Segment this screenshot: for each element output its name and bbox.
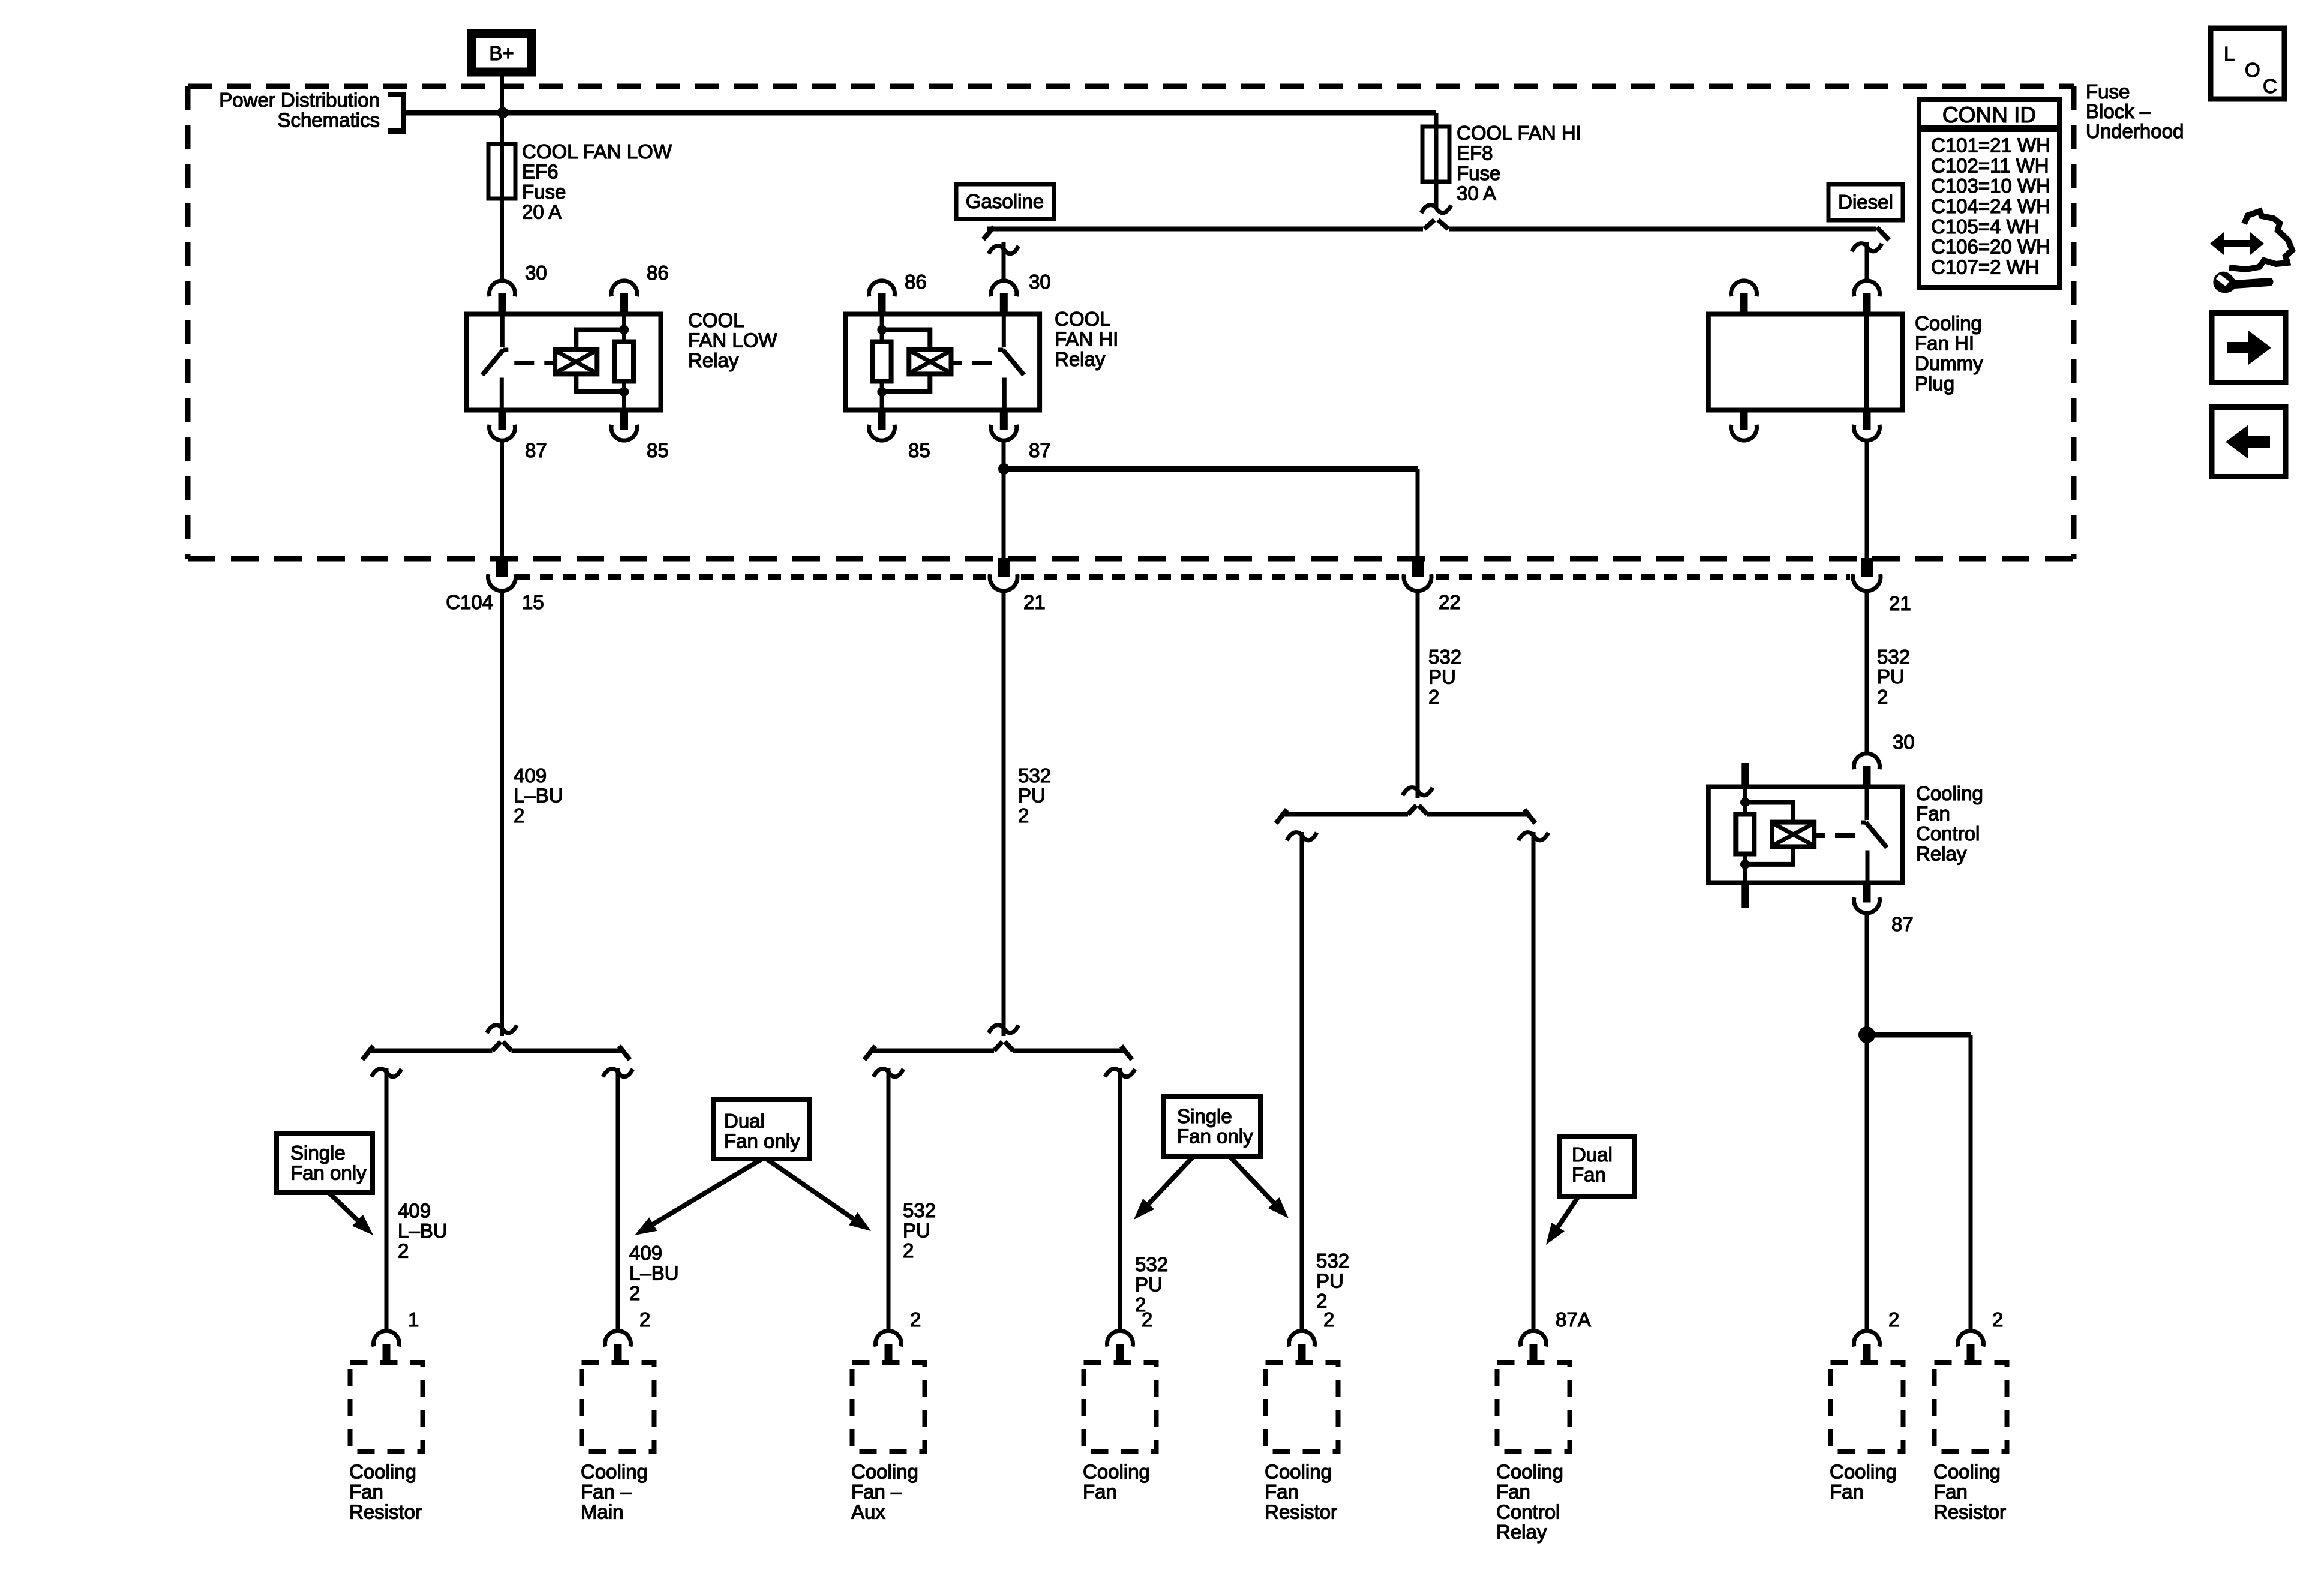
pin 2 connector of cooling fan main: [605, 1308, 651, 1362]
svg-text:87: 87: [1891, 913, 1914, 935]
svg-text:409: 409: [398, 1200, 431, 1222]
svg-text:Relay: Relay: [1496, 1521, 1547, 1543]
svg-text:532: 532: [1018, 764, 1051, 786]
pin 87 of control relay: [1891, 913, 1914, 935]
relay K3 Cooling Fan Control: [1709, 754, 1983, 913]
svg-text:2: 2: [639, 1308, 650, 1331]
relay K2 COOL FAN HI: [845, 281, 1118, 440]
svg-text:O: O: [2245, 59, 2260, 81]
connector C104 pin 21 diesel: [1853, 558, 1911, 614]
wire junction to connector pin 22: [1004, 469, 1418, 559]
wire circuit 532 PU from pin 21: [989, 590, 1051, 1036]
svg-text:22: 22: [1439, 591, 1461, 613]
svg-text:532: 532: [1316, 1250, 1349, 1272]
wire gasoline-diesel feed line: [983, 220, 1889, 241]
pin 86 of COOL FAN HI relay: [905, 271, 927, 293]
connector C104 dotted line: [517, 574, 1850, 580]
svg-text:Dual: Dual: [1572, 1143, 1613, 1166]
junction dot wire4: [1858, 1026, 1875, 1043]
svg-text:Cooling: Cooling: [1916, 782, 1983, 804]
svg-text:PU: PU: [1428, 666, 1456, 688]
svg-text:87A: 87A: [1556, 1308, 1591, 1331]
svg-text:Cooling: Cooling: [1265, 1461, 1332, 1483]
wire COOL FAN LOW 87 to C104 pin 15: [500, 442, 504, 558]
svg-text:2: 2: [1018, 804, 1029, 827]
svg-text:Underhood: Underhood: [2086, 120, 2184, 142]
svg-text:2: 2: [1323, 1308, 1334, 1331]
pin 85 of COOL FAN HI relay: [908, 439, 930, 461]
svg-text:L–BU: L–BU: [398, 1220, 448, 1242]
component cooling fan (single): [1083, 1362, 1157, 1503]
svg-text:2: 2: [1428, 686, 1439, 708]
svg-text:2: 2: [398, 1240, 409, 1262]
svg-text:Fan: Fan: [1265, 1481, 1299, 1503]
component cooling fan main: [581, 1362, 654, 1523]
wire branch 409 to cooling fan main: [603, 1068, 679, 1329]
svg-text:86: 86: [905, 271, 927, 293]
label Single Fan only right: [1134, 1097, 1289, 1220]
svg-text:EF8: EF8: [1457, 142, 1493, 164]
svg-text:Fan –: Fan –: [581, 1481, 632, 1503]
svg-text:Control: Control: [1496, 1501, 1560, 1523]
fuse EF6 COOL FAN LOW 20A: [488, 140, 672, 223]
svg-text:86: 86: [647, 262, 669, 284]
svg-text:Dummy: Dummy: [1915, 352, 1983, 374]
svg-text:Cooling: Cooling: [1083, 1461, 1150, 1483]
svg-text:Relay: Relay: [1916, 843, 1967, 865]
junction dot wire2: [998, 463, 1010, 475]
pin 2 connector of cooling fan (single): [1107, 1308, 1153, 1362]
svg-text:87: 87: [525, 439, 547, 461]
svg-text:15: 15: [522, 591, 544, 613]
svg-text:B+: B+: [489, 42, 514, 64]
svg-text:Schematics: Schematics: [277, 109, 380, 131]
wire branch to cooling fan resistor right: [1867, 1035, 1971, 1329]
icon next arrow: [2212, 313, 2286, 383]
svg-text:2: 2: [910, 1308, 921, 1331]
svg-text:PU: PU: [1135, 1274, 1163, 1296]
connector C104 pin 15: [446, 558, 544, 613]
svg-text:87: 87: [1029, 439, 1051, 461]
connector C104 pin 21: [990, 558, 1046, 613]
svg-text:PU: PU: [1316, 1270, 1344, 1292]
svg-text:COOL FAN HI: COOL FAN HI: [1457, 122, 1581, 144]
svg-text:2: 2: [903, 1239, 914, 1262]
svg-text:Cooling: Cooling: [1830, 1461, 1897, 1483]
svg-text:L: L: [2224, 43, 2235, 65]
splice bracket wire 409: [362, 1042, 630, 1060]
svg-text:L–BU: L–BU: [629, 1262, 679, 1284]
node Power Distribution Schematics bus: [219, 89, 1436, 131]
svg-text:Fan only: Fan only: [290, 1162, 367, 1184]
svg-text:Gasoline: Gasoline: [966, 190, 1044, 212]
fuse EF8 COOL FAN HI 30A: [1422, 122, 1581, 205]
wire EF8 to splice: [1434, 182, 1439, 207]
svg-text:Fan –: Fan –: [851, 1481, 902, 1503]
splice bracket wire 532 gasoline: [864, 1042, 1132, 1060]
svg-text:2: 2: [629, 1282, 640, 1304]
component cooling fan (diesel): [1830, 1362, 1903, 1503]
pin 2 connector of cooling fan aux: [876, 1308, 921, 1362]
connector Cooling Fan HI Dummy Plug: [1709, 281, 1983, 440]
component cooling fan control relay coil: [1496, 1362, 1570, 1543]
svg-text:C104: C104: [446, 591, 493, 613]
wire control relay 87 to cooling fans: [1865, 915, 1869, 1329]
svg-text:Cooling: Cooling: [349, 1461, 416, 1483]
svg-text:Fuse: Fuse: [1457, 162, 1500, 184]
svg-text:CONN ID: CONN ID: [1942, 103, 2036, 127]
wire junction to connector pin 21: [1002, 469, 1006, 558]
relay K1 COOL FAN LOW: [467, 281, 778, 440]
svg-text:21: 21: [1023, 591, 1046, 613]
svg-text:Resistor: Resistor: [349, 1501, 422, 1523]
wire circuit 409 L-BU from C104-15: [487, 590, 563, 1036]
svg-text:Fan: Fan: [1496, 1481, 1530, 1503]
svg-text:Resistor: Resistor: [1265, 1501, 1337, 1523]
icon back arrow: [2212, 407, 2286, 477]
svg-text:Dual: Dual: [724, 1110, 765, 1132]
svg-text:C105=4 WH: C105=4 WH: [1931, 215, 2040, 238]
svg-text:Plug: Plug: [1915, 373, 1954, 395]
svg-text:FAN LOW: FAN LOW: [688, 329, 777, 352]
svg-text:EF6: EF6: [522, 161, 559, 183]
svg-text:Fan: Fan: [1933, 1481, 1968, 1503]
svg-text:30: 30: [1029, 271, 1051, 293]
svg-text:PU: PU: [1018, 785, 1046, 807]
wire B+ to fuse EF6: [500, 76, 504, 144]
svg-text:COOL FAN LOW: COOL FAN LOW: [522, 140, 672, 163]
wire branch 532 to cooling fan aux: [873, 1068, 936, 1329]
svg-text:2: 2: [1992, 1308, 2003, 1331]
label Single Fan only left: [277, 1134, 373, 1235]
svg-text:Fan: Fan: [349, 1481, 383, 1503]
svg-text:Cooling: Cooling: [1915, 312, 1982, 334]
svg-text:409: 409: [629, 1242, 662, 1264]
svg-text:2: 2: [1888, 1308, 1899, 1331]
power symbol B+: [472, 34, 532, 72]
svg-text:2: 2: [1142, 1308, 1152, 1331]
svg-text:Relay: Relay: [688, 349, 739, 371]
pin 2 connector of cooling fan resistor (diesel): [1958, 1308, 2004, 1362]
wire branch 532 to cooling fan control relay 87A: [1518, 832, 1548, 1329]
icon LOC box: [2211, 28, 2284, 99]
svg-text:30: 30: [525, 262, 547, 284]
wire COOL FAN HI 87 to junction: [1002, 442, 1006, 469]
svg-text:532: 532: [903, 1199, 936, 1221]
svg-text:Aux: Aux: [851, 1501, 885, 1523]
svg-text:20 A: 20 A: [522, 201, 562, 223]
label Dual Fan: [1546, 1136, 1635, 1245]
wire circuit 532 PU from pin 22: [1403, 590, 1461, 798]
pin 87A connector of cooling fan control relay coil: [1521, 1308, 1591, 1362]
svg-text:FAN HI: FAN HI: [1055, 328, 1118, 350]
svg-text:409: 409: [514, 764, 547, 786]
svg-text:C: C: [2263, 75, 2277, 97]
svg-text:C102=11 WH: C102=11 WH: [1931, 154, 2049, 176]
pin 30 of control relay: [1893, 731, 1915, 753]
svg-text:PU: PU: [1877, 665, 1905, 688]
svg-text:C101=21 WH: C101=21 WH: [1931, 134, 2050, 157]
svg-text:Cooling: Cooling: [851, 1461, 918, 1483]
wire diesel line to dummy plug pin: [1852, 242, 1882, 280]
svg-text:1: 1: [408, 1308, 419, 1331]
svg-text:COOL: COOL: [1055, 308, 1111, 330]
svg-text:Block –: Block –: [2086, 100, 2151, 122]
svg-text:Diesel: Diesel: [1838, 191, 1893, 213]
svg-text:C103=10 WH: C103=10 WH: [1931, 175, 2050, 197]
label Fuse Block Underhood: [2086, 80, 2184, 142]
wire branch 409 to cooling fan resistor: [371, 1068, 448, 1329]
svg-text:PU: PU: [903, 1220, 930, 1242]
svg-text:21: 21: [1889, 592, 1911, 614]
svg-text:Fan: Fan: [1083, 1481, 1117, 1503]
junction dot at B+ bus: [497, 107, 509, 119]
svg-text:Main: Main: [581, 1501, 624, 1523]
svg-text:2: 2: [1877, 686, 1888, 708]
pin 86 of COOL FAN LOW relay: [647, 262, 669, 284]
splice break at EF8 output: [1421, 205, 1451, 213]
svg-text:85: 85: [908, 439, 930, 461]
svg-text:COOL: COOL: [688, 309, 744, 331]
icon vehicle with wrench: [2210, 211, 2292, 293]
pin 2 connector of cooling fan resistor (single): [1289, 1308, 1335, 1362]
splice bracket wire 532 pin 22: [1276, 806, 1535, 824]
wire dummy plug to connector pin 21 diesel: [1865, 442, 1869, 558]
wire gasoline line to COOL FAN HI relay pin 30: [989, 242, 1019, 280]
component cooling fan resistor (diesel): [1933, 1362, 2007, 1523]
wire bus to fuse EF8: [1434, 113, 1439, 127]
svg-text:Power Distribution: Power Distribution: [219, 89, 380, 111]
svg-text:Fan: Fan: [1916, 803, 1950, 825]
pin 2 connector of cooling fan (diesel): [1854, 1308, 1900, 1362]
svg-text:Fan only: Fan only: [1177, 1125, 1253, 1148]
svg-text:532: 532: [1877, 646, 1910, 668]
svg-text:30: 30: [1893, 731, 1915, 753]
svg-text:Fan only: Fan only: [724, 1130, 800, 1152]
pin 85 of COOL FAN LOW relay: [647, 439, 669, 461]
svg-text:2: 2: [514, 804, 524, 827]
svg-text:Control: Control: [1916, 822, 1980, 845]
svg-text:Relay: Relay: [1055, 348, 1106, 370]
fuse block underhood dashed border: [188, 86, 2074, 559]
svg-text:Cooling: Cooling: [1933, 1461, 2001, 1483]
svg-text:Fan HI: Fan HI: [1915, 332, 1974, 355]
pin 87 of COOL FAN HI relay: [1029, 439, 1051, 461]
svg-text:Fan: Fan: [1572, 1164, 1606, 1186]
component cooling fan resistor (single): [1265, 1362, 1338, 1523]
label Diesel: [1828, 184, 1903, 220]
svg-text:532: 532: [1135, 1253, 1168, 1275]
svg-text:Single: Single: [1177, 1105, 1232, 1127]
svg-text:30 A: 30 A: [1457, 182, 1496, 205]
component cooling fan resistor 1: [349, 1362, 423, 1523]
wire branch 532 to cooling fan resistor single: [1287, 832, 1349, 1329]
svg-text:Single: Single: [290, 1142, 346, 1164]
svg-text:Fuse: Fuse: [2086, 80, 2130, 103]
svg-text:C104=24 WH: C104=24 WH: [1931, 195, 2050, 217]
CONN ID table: [1919, 100, 2059, 287]
svg-text:Cooling: Cooling: [1496, 1461, 1563, 1483]
wire branch 532 to cooling fan: [1105, 1068, 1168, 1329]
component cooling fan aux: [851, 1362, 925, 1523]
svg-text:C106=20 WH: C106=20 WH: [1931, 236, 2050, 258]
label Gasoline: [956, 184, 1054, 219]
svg-text:532: 532: [1428, 646, 1461, 668]
pin 30 of COOL FAN HI relay: [1029, 271, 1051, 293]
svg-text:L–BU: L–BU: [514, 785, 563, 807]
svg-text:85: 85: [647, 439, 669, 461]
label Dual Fan only: [635, 1100, 871, 1235]
svg-text:C107=2 WH: C107=2 WH: [1931, 256, 2040, 278]
wire circuit 532 PU to control relay 30: [1867, 590, 1910, 752]
pin 87 of COOL FAN LOW relay: [525, 439, 547, 461]
svg-text:Fan: Fan: [1830, 1481, 1864, 1503]
pin 1 connector of cooling fan resistor 1: [374, 1308, 419, 1362]
wire EF6 to COOL FAN LOW relay pin 30: [500, 199, 504, 280]
svg-text:Cooling: Cooling: [581, 1461, 648, 1483]
svg-text:Resistor: Resistor: [1933, 1501, 2006, 1523]
connector C104 pin 22: [1404, 558, 1461, 613]
svg-text:Fuse: Fuse: [522, 181, 566, 203]
pin 30 of COOL FAN LOW relay: [525, 262, 547, 284]
